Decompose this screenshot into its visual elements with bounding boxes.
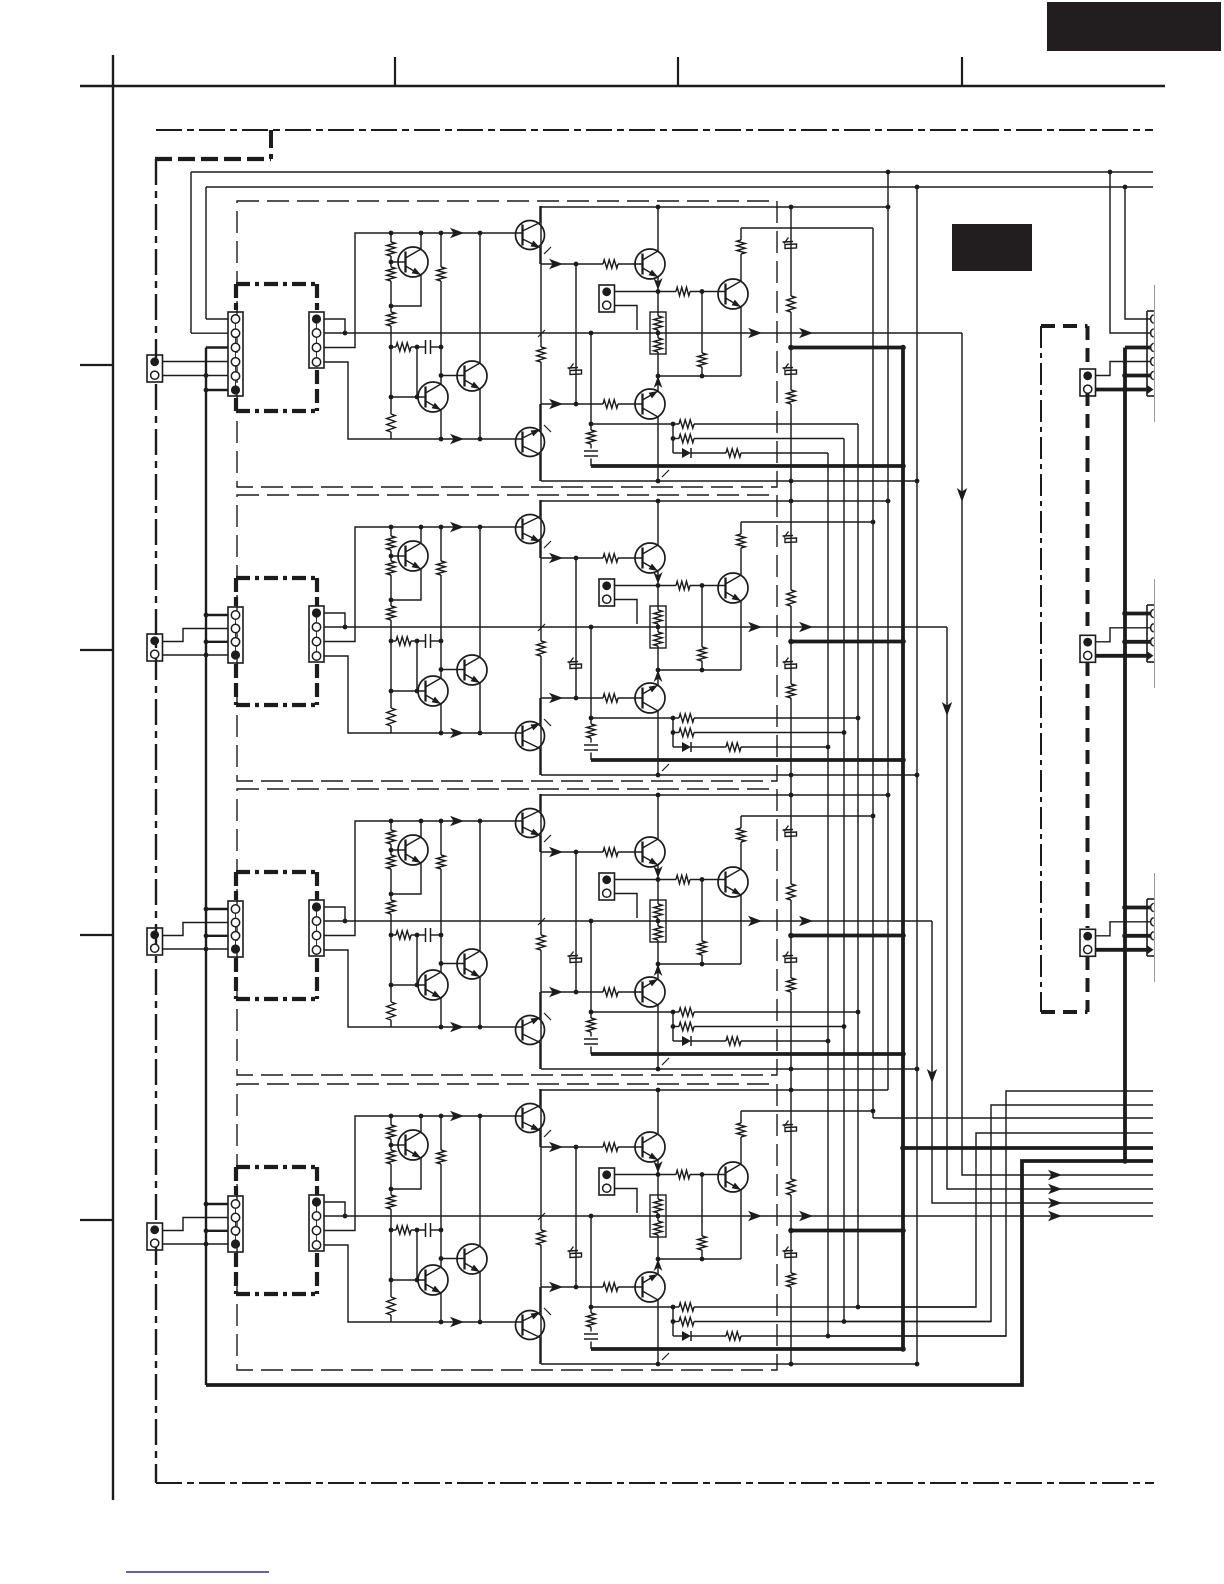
ch2 node y376 x702	[700, 668, 705, 673]
ch4 dashed block border	[237, 1084, 777, 1370]
ch2 edge pin 1	[1151, 609, 1154, 617]
ch1 wire Q6-Q8 base link	[658, 291, 726, 293]
ch4 node x441 top	[439, 1114, 444, 1119]
ch3 node x873 y228	[871, 814, 876, 819]
ch2 boxed resistor VR1	[650, 606, 666, 648]
ch2 resistor R1 bias chain	[387, 536, 395, 550]
ch1 node jog onto signal line	[343, 331, 348, 336]
ch1 connector CN-L (6-pin)	[228, 312, 243, 396]
ch2 wire thick bus to edge pin3	[1125, 640, 1151, 644]
ch2 mid rail upper	[541, 557, 643, 559]
ch1 node thick lower x903	[900, 463, 906, 469]
ch3 thick wire lower to bus	[591, 1052, 903, 1056]
supply vertical x873	[872, 228, 874, 1118]
ch2 transistor Q3	[457, 655, 487, 685]
ch4 top rail	[391, 1115, 522, 1117]
ch1 arrow Q7 emitter up	[654, 376, 663, 391]
ch4 resistor R4 bias chain	[387, 1297, 395, 1315]
ch2 transistor Q4 upper driver	[516, 515, 545, 544]
ch2 node box top x791	[789, 499, 794, 504]
ch3 wire x591 from signal	[590, 921, 592, 1054]
ch4 node box top x658	[656, 1088, 661, 1093]
ch3 arrow bottom rail	[450, 1022, 464, 1032]
ch1 resistor R15	[587, 430, 595, 444]
ch2 edge pin 3	[1151, 638, 1154, 646]
ch3 node box top x888	[886, 793, 891, 798]
ch1 wire Q8 collector up with resistor	[741, 228, 873, 281]
ch2 node thick upper x903	[900, 639, 906, 645]
ch4 bottom rail	[391, 1321, 522, 1323]
ch4 transistor Q6 upper output	[635, 1132, 665, 1162]
ch3 tick box bottom	[662, 1058, 669, 1065]
ch4 node box bottom x791	[789, 1362, 794, 1367]
ch4 wire Q8 collector up with resistor	[741, 1111, 873, 1164]
ch2 capacitor C2	[584, 745, 598, 750]
ch3 node box bottom x658	[656, 1067, 661, 1072]
ch2 thick wire lower to bus	[591, 758, 903, 762]
ch1 resistor R8	[603, 260, 618, 268]
ch1 bottom rail	[391, 438, 522, 440]
ch4 connector CN-T (2-pin)	[599, 1168, 615, 1195]
ch1 wire Q3 emitter down	[479, 389, 481, 439]
ch1 wire Q3 base feed	[441, 375, 465, 377]
ground bus vertical x206	[205, 348, 207, 1386]
ch3 wire Q4 emitter to mid rail	[539, 836, 541, 853]
ch3 transistor Q8 bias servo	[718, 867, 748, 897]
ch3 resistor R5 across	[396, 931, 411, 939]
ch2 node Q2 emitter	[439, 731, 444, 736]
ch2 transistor Q7 lower output	[635, 683, 665, 713]
ch3 wire input hot stepped to pin2	[163, 923, 228, 936]
ch2 resistor R6	[437, 561, 445, 575]
ch3 edge pin 3	[1151, 932, 1154, 940]
ch1 node R5-C1	[415, 345, 420, 350]
ch2 tap wire 3 with diode	[673, 746, 828, 748]
ch4 node bias mid	[389, 1187, 394, 1192]
ch2 node x441 RC	[439, 639, 444, 644]
ch2 node Q2 base column	[389, 689, 394, 694]
ch2 wire Q5 emitter to mid rail	[539, 698, 541, 724]
ch2 transistor Q2	[418, 676, 448, 706]
top tick mark 2	[677, 57, 679, 86]
ch2 resistor R9	[603, 694, 618, 702]
ch3 wire Q3 base feed	[441, 963, 465, 965]
ch1 resistor R17	[679, 434, 694, 442]
ch1 wire Q6 emitter	[653, 277, 662, 292]
ch2 node thick pin3	[1122, 639, 1128, 645]
ch4 tap wire 3 with diode	[673, 1335, 1006, 1337]
ch2 arrow bottom rail	[450, 728, 464, 738]
ch4 node mid rail upper x576	[574, 1145, 579, 1150]
ch2 edge connector bracket	[1147, 579, 1155, 688]
ch1 wire x591 from signal	[590, 333, 592, 466]
ch3 output box bottom wire	[541, 1068, 917, 1070]
ch3 wire RC segments	[391, 934, 441, 936]
ch2 tap wire 2	[673, 732, 844, 734]
ch1 dashed block border	[237, 201, 777, 487]
ch1 node tap1 x673	[671, 422, 676, 427]
left tick mark 3	[80, 934, 113, 936]
ch4 node Q2 emitter	[439, 1320, 444, 1325]
ch1 node mid rail upper x576	[574, 262, 579, 267]
ch4 tick signal entry	[538, 1213, 545, 1220]
ch1 node box top x888	[886, 205, 891, 210]
ch3 node mid rail upper x576	[574, 850, 579, 855]
ch2 node Q3 emitter	[478, 731, 483, 736]
outer border left dash-dot	[155, 159, 157, 1483]
ch4 resistor R2 bias chain	[387, 1150, 395, 1164]
ch4 capacitor C2	[584, 1334, 598, 1339]
ch3 wire CN-R pin1 jog	[324, 907, 345, 921]
ch2 node mid rail upper x576	[574, 556, 579, 561]
ch1 node Q2 base RC drop	[415, 395, 420, 400]
ch4 node signal x591	[589, 1214, 594, 1219]
ch2 wire x591 from signal	[590, 627, 592, 760]
ch1 capacitor C1	[426, 340, 431, 354]
ch3 resistor R14 on x791	[787, 978, 795, 992]
ch3 transistor Q2	[418, 970, 448, 1000]
ch3 resistor R9	[603, 988, 618, 996]
ch4 node jog onto signal line	[343, 1214, 348, 1219]
ch2 tick Q4 emitter	[544, 541, 551, 548]
ch1 wire bias chain segments	[390, 233, 392, 439]
ch4 wire RC segments	[391, 1229, 441, 1231]
ch3 node box bottom x917	[915, 1067, 920, 1072]
ch3 resistor R17	[679, 1022, 694, 1030]
ch4 output box top wire	[541, 1089, 888, 1091]
ch3 resistor R18	[726, 1037, 741, 1045]
ch1 transistor Q4 upper driver	[516, 221, 545, 250]
ch1 signal line	[324, 332, 962, 334]
ch2 input connector CN-IN	[147, 634, 163, 661]
ch1 node bias mid	[389, 304, 394, 309]
ch2 node VR1 wiper on signal	[656, 625, 661, 630]
ch2 resistor R7 in left edge	[537, 641, 545, 656]
ch4 wire ground bus to pin1 thick	[206, 1203, 228, 1205]
ch2 resistor R16	[679, 714, 694, 722]
ch1 wire thick bus to edge pin5	[1125, 374, 1151, 378]
ch2 node Q2 base RC drop	[415, 689, 420, 694]
ch1 input section thick dash-dot box	[236, 284, 317, 411]
ch3 node thick pin4	[1122, 947, 1128, 953]
ch3 node tap3 bus	[826, 1039, 831, 1044]
ch1 node bias top	[389, 231, 394, 236]
ch1 tick Q5 emitter	[544, 425, 551, 432]
ch3 mid rail lower	[541, 991, 643, 993]
ch1 connector CN-R (4-pin)	[309, 312, 324, 368]
tap bus vertical x844	[843, 439, 845, 1322]
ch3 resistor R15	[587, 1018, 595, 1032]
ch2 resistor R5 across	[396, 637, 411, 645]
ch3 node Q7 emitter wire	[656, 962, 661, 967]
ch1 resistor R16	[679, 420, 694, 428]
ch2 node x873 y228	[871, 520, 876, 525]
ch3 mid rail upper	[541, 851, 643, 853]
outer border top dash-dot	[156, 129, 1153, 131]
fan riser x976 from ch4 tap1	[858, 1133, 1153, 1307]
ch3 wire Q4 collector to box top	[539, 794, 541, 811]
ch1 wire CN-R pin3 to top rail	[324, 233, 391, 348]
ch1 wire Q6 collector	[657, 207, 659, 251]
left tick mark 1	[80, 364, 113, 366]
right dashed enclosure right edge segments	[1086, 326, 1090, 1012]
ch3 wire Q3 collector up	[479, 821, 481, 951]
node bus B1 at x888	[886, 170, 891, 175]
ch4 node x873 end	[871, 1109, 876, 1114]
ch3 arrow mid rail lower	[549, 987, 563, 997]
ch2 wire input hot stepped to pin2	[163, 629, 228, 642]
ch3 resistor R6	[437, 855, 445, 869]
ch1 transistor Q3	[457, 361, 487, 391]
ch3 resistor R2 bias chain	[387, 855, 395, 869]
ch2 tap link x673	[672, 718, 674, 747]
ch1 resistor R10	[676, 287, 690, 295]
ch4 boxed resistor VR1	[650, 1195, 666, 1237]
ch2 node Q3 base	[439, 667, 444, 672]
ch2 arrow signal 1	[748, 622, 762, 632]
ch1 thick wire lower to bus	[591, 464, 903, 468]
blue footer link line	[126, 1571, 269, 1573]
ch3 node Q6 emitter	[656, 877, 661, 882]
ch2 node box top x888	[886, 499, 891, 504]
ch1 wire 2pin gnd thick to edge pin6	[1096, 388, 1150, 392]
ch3 transistor Q7 lower output	[635, 977, 665, 1007]
tap bus vertical x828	[827, 453, 829, 1336]
ch1 trimmer TC1	[568, 364, 582, 379]
ch1 edge pin 6	[1147, 385, 1154, 395]
ch3 wire Q8 collector up with resistor	[741, 816, 873, 869]
ch1 edge pin 2	[1151, 329, 1154, 337]
ch1 tap wire 2	[673, 438, 844, 440]
ch4 node box bottom x917	[915, 1362, 920, 1367]
ch4 tick Q5 emitter	[544, 1308, 551, 1315]
ch3 wire bias chain segments	[390, 821, 392, 1027]
ch3 node Q2 base RC drop	[415, 983, 420, 988]
ch3 right 2-pin connector	[1080, 929, 1096, 956]
ch1 tap link x673	[672, 424, 674, 453]
ch2 node tap1 x673	[671, 716, 676, 721]
node fan F5 at x903	[900, 1145, 906, 1151]
fan-out line F3 from x873	[873, 1117, 1153, 1119]
ch2 node tap2 x673	[671, 730, 676, 735]
ch2 wire 2pin hot stepped to edge pin2	[1096, 628, 1151, 642]
ch4 arrow signal 1	[748, 1211, 762, 1221]
ch3 node thick lower x903	[900, 1051, 906, 1057]
ch4 node Q3 emitter	[478, 1320, 483, 1325]
ch1 top rail	[391, 232, 522, 234]
ch1 wire thick bus to edge pin3	[1125, 346, 1151, 350]
ch2 input section thick dash-dot box	[236, 578, 317, 705]
ch1 mid rail upper	[541, 263, 643, 265]
ch3 node Q3 emitter	[478, 1025, 483, 1030]
left tick mark 4	[80, 1219, 113, 1221]
ch3 capacitor C1	[426, 928, 431, 942]
ch2 output box top wire	[541, 500, 888, 502]
ch3 wire 2pin hot stepped to edge pin2	[1096, 922, 1151, 936]
title block black box	[1047, 2, 1221, 51]
ch4 transistor Q2	[418, 1265, 448, 1295]
ch4 arrow signal 3 fan	[1048, 1211, 1062, 1221]
ch2 tick signal entry	[538, 624, 545, 631]
ch1 node Q3 emitter	[478, 437, 483, 442]
ch4 connector CN-R (4-pin)	[309, 1195, 324, 1251]
ch2 tap wire 1	[591, 717, 858, 719]
ch3 wire Q6-Q8 base link	[658, 879, 726, 881]
ch3 output box top wire	[541, 794, 888, 796]
ch1 wire x576 link	[575, 264, 577, 404]
ch2 output box bottom wire	[541, 774, 917, 776]
ch3 connector CN-R (4-pin)	[309, 900, 324, 956]
ch1 tick Q4 emitter	[544, 247, 551, 254]
ch1 output box left edge	[540, 206, 542, 481]
ch1 input connector CN-IN	[147, 355, 163, 382]
ch1 arrow bottom rail	[450, 434, 464, 444]
ch3 node tap1 x673	[671, 1010, 676, 1015]
ch1 wire RC segments	[391, 346, 441, 348]
ch1 resistor R9	[603, 400, 618, 408]
ch2 node ground bus pin3	[204, 639, 209, 644]
ch4 arrow top rail	[450, 1111, 464, 1121]
ch2 node x441 top	[439, 525, 444, 530]
ch1 node tap x591	[589, 422, 594, 427]
ch4 wire lower link y376	[658, 1258, 741, 1260]
ch3 thick wire upper to bus	[791, 934, 903, 938]
ch3 wire Q2 base feed	[391, 935, 426, 985]
ch3 connector CN-L (4-pin)	[228, 901, 243, 957]
ch1 trimmer TC2 on x791	[783, 238, 797, 253]
ch1 node tap2 x673	[671, 436, 676, 441]
ch1 mid rail lower	[541, 403, 643, 405]
ch2 wire Q3 collector up	[479, 527, 481, 657]
ch2 wire Q6 collector	[657, 501, 659, 545]
ch4 arrow mid rail lower	[549, 1282, 563, 1292]
node ch4 tap3 at x828	[826, 1334, 831, 1339]
ch1 arrow top rail	[450, 228, 464, 238]
ch3 input section thick dash-dot box	[236, 872, 317, 999]
ch4 transistor Q8 bias servo	[718, 1162, 748, 1192]
ch1 resistor R3 bias chain	[387, 312, 395, 326]
ch4 arrow Q7 emitter up	[654, 1259, 663, 1274]
ch3 diode D1	[682, 1036, 691, 1046]
page frame top rule	[80, 85, 1165, 88]
ch1 transistor Q5 lower driver	[516, 428, 545, 457]
ch1 node thick pin6	[1122, 387, 1128, 393]
ch2 tick Q5 emitter	[544, 719, 551, 726]
ch1 wire input gnd to pin5	[163, 375, 228, 377]
ch1 thick wire upper to bus	[791, 346, 903, 350]
ch4 node bias RC	[389, 1228, 394, 1233]
ch1 node ground bus pin6	[204, 388, 209, 393]
ch3 transistor Q3	[457, 949, 487, 979]
ch3 node Q2 base column	[389, 983, 394, 988]
ch1 resistor R7 in left edge	[537, 347, 545, 362]
ch1 transistor Q8 bias servo	[718, 279, 748, 309]
ch4 node tap2 x673	[671, 1319, 676, 1324]
ch1 resistor R14 on x791	[787, 390, 795, 404]
ch1 edge connector bracket	[1147, 285, 1155, 422]
ch3 node Q3 base	[439, 961, 444, 966]
top tick mark 1	[394, 57, 396, 86]
ch4 wire input gnd to pin4	[163, 1243, 228, 1245]
ch3 node tap2 bus	[842, 1024, 847, 1029]
ch4 resistor R18	[726, 1332, 741, 1340]
ch1 output box bottom wire	[541, 480, 917, 482]
right dashed enclosure top edge	[1041, 324, 1088, 328]
ch4 arrow bottom rail	[450, 1317, 464, 1327]
ch1 resistor R1 bias chain	[387, 242, 395, 256]
ch4 wire bias chain segments	[390, 1116, 392, 1322]
ch1 node Q3 collector	[478, 231, 483, 236]
ch2 resistor R15	[587, 724, 595, 738]
ch4 wire Q1 collector to top rail	[420, 1116, 422, 1132]
ch2 node Q1 base	[389, 554, 394, 559]
ch2 node signal x591	[589, 625, 594, 630]
ch3 tick Q4 emitter	[544, 835, 551, 842]
ch2 dashed block border	[237, 495, 777, 781]
ch1 wire column x441	[440, 233, 442, 385]
ch3 tap wire 2	[673, 1026, 844, 1028]
ch1 wire lower link y376	[658, 375, 741, 377]
ch1 wire 2pin hot to edge pin4	[1096, 362, 1151, 376]
ch2 node Q7 emitter wire	[656, 668, 661, 673]
ch1 wire CN-T hot	[615, 291, 659, 293]
ch1 wire Q3 collector up	[479, 233, 481, 363]
ch2 wire Q6 emitter	[653, 571, 662, 586]
ch3 wire Q5 emitter to mid rail	[539, 992, 541, 1018]
ch3 wire input gnd to pin4	[163, 948, 228, 950]
ch4 resistor R6	[437, 1150, 445, 1164]
ch4 wire input hot stepped to pin2	[163, 1218, 228, 1231]
ch4 node box top x791	[789, 1088, 794, 1093]
bus wire B2 top	[206, 186, 1153, 188]
ch3 transistor Q4 upper driver	[516, 809, 545, 838]
ch3 resistor R4 bias chain	[387, 1002, 395, 1020]
ch3 resistor R3 bias chain	[387, 900, 395, 914]
ch1 resistor R18	[726, 449, 741, 457]
ch4 node input gnd on ground bus	[204, 1242, 209, 1247]
ch3 node base link x702	[700, 877, 705, 882]
ch1 wire Q1 emitter feedback	[391, 275, 421, 306]
ch2 trimmer TC1	[568, 658, 582, 673]
ch4 resistor R1 bias chain	[387, 1125, 395, 1139]
ch2 node tap2 bus	[842, 730, 847, 735]
ch3 node jog onto signal line	[343, 919, 348, 924]
ch3 tap link x673	[672, 1012, 674, 1041]
ch4 wire Q3 collector up	[479, 1116, 481, 1246]
ch2 connector CN-T (2-pin)	[599, 579, 615, 606]
wire bus B1 left drop to CN1 pin2	[190, 172, 192, 333]
node bus B2 at x1125	[1123, 185, 1128, 190]
node ch4 tap2 at x844	[842, 1319, 847, 1324]
ch3 wire Q7 collector	[657, 1005, 659, 1069]
ch2 wire CN-R pin3 to top rail	[324, 527, 391, 642]
ch4 node thick upper x903	[900, 1228, 906, 1234]
ch2 mid rail lower	[541, 697, 643, 699]
ch4 node tap x591	[589, 1305, 594, 1310]
ch1 right 2-pin connector	[1080, 369, 1096, 396]
arrow right fan F7	[1048, 1170, 1062, 1180]
ch3 wire VR1 top	[657, 880, 659, 901]
ch3 resistor R1 bias chain	[387, 830, 395, 844]
ch4 trimmer TC3 on x791	[783, 1247, 797, 1261]
ch3 edge connector bracket	[1147, 873, 1155, 982]
ch2 wire Q4 emitter to mid rail	[539, 542, 541, 559]
ch3 wire VR1 bottom	[657, 942, 659, 964]
ch1 trimmer TC3 on x791	[783, 364, 797, 378]
ch1 node box bottom x917	[915, 479, 920, 484]
ch3 resistor R10	[676, 875, 690, 883]
ch4 resistor R15	[587, 1313, 595, 1327]
